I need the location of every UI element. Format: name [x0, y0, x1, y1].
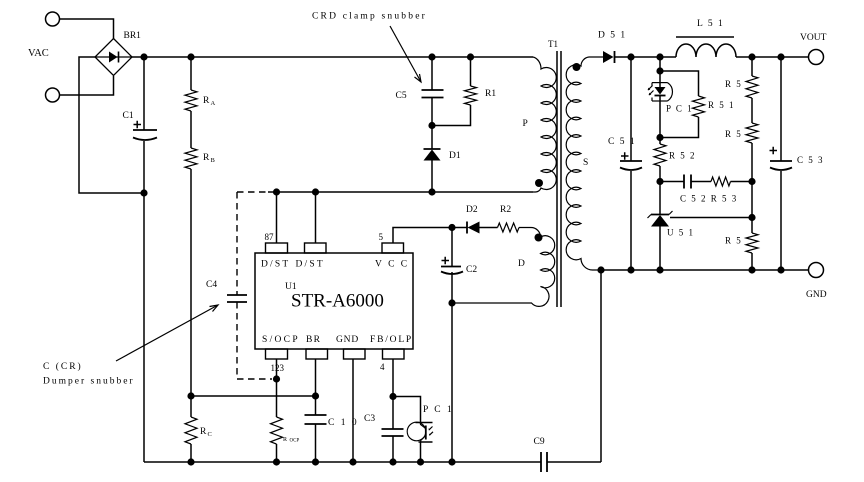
svg-text:R 5: R 5 — [725, 129, 742, 139]
svg-text:C 1 0: C 1 0 — [328, 418, 359, 428]
shunt regulator U51 — [648, 211, 673, 227]
node bridge output — [140, 53, 147, 60]
optocoupler LED PC1 — [648, 57, 673, 144]
U1 pin D/ST top second — [305, 243, 327, 253]
svg-text:D2: D2 — [466, 205, 478, 215]
node C10 bottom — [312, 458, 319, 465]
U1 pin 4 FB/OLP bottom — [383, 349, 405, 359]
svg-text:FB/OLP: FB/OLP — [370, 335, 413, 345]
wire D/ST pin 8-7 — [276, 192, 278, 243]
svg-text:P C 1: P C 1 — [423, 405, 454, 415]
resistor R5 middle — [746, 123, 758, 143]
label C2 plus — [442, 257, 450, 264]
node divider bottom — [748, 266, 755, 273]
node GND pin bottom — [349, 458, 356, 465]
U1 pin GND bottom — [344, 349, 366, 359]
svg-text:4: 4 — [380, 362, 385, 372]
resistor RC — [185, 417, 197, 444]
node LED top — [656, 53, 663, 60]
capacitor C3 — [382, 429, 404, 436]
svg-text:P: P — [523, 119, 528, 129]
svg-text:R 5 1: R 5 1 — [708, 100, 735, 110]
wire top DC rail — [132, 56, 533, 58]
wire C5 column — [431, 57, 433, 192]
wire FB branch to phototransistor — [393, 397, 421, 423]
svg-text:D/ST: D/ST — [261, 260, 290, 270]
svg-text:5: 5 — [379, 232, 384, 242]
node C1 bottom — [140, 189, 147, 196]
wire S/OCP pin down — [276, 359, 278, 462]
polarity dot primary — [535, 179, 543, 187]
node R1 top — [467, 53, 474, 60]
arrow to C4 — [116, 305, 218, 361]
svg-text:R: R — [200, 427, 207, 437]
diode D1 — [424, 149, 441, 161]
terminal AC input top — [46, 12, 60, 26]
capacitor C1 — [133, 130, 157, 140]
resistor RA — [185, 90, 197, 111]
resistor R1 — [465, 86, 477, 105]
wire GND pin down — [352, 359, 354, 462]
U1 pin 1-2-3 S/OCP bottom — [266, 349, 288, 359]
node D/ST pin b — [312, 188, 319, 195]
node C5 top — [428, 53, 435, 60]
wire VCC pin 5 — [393, 228, 452, 244]
transformer T1 core — [556, 51, 558, 307]
svg-text:C3: C3 — [364, 414, 375, 424]
svg-text:C 5 3: C 5 3 — [797, 155, 824, 165]
wire C53 column — [780, 57, 782, 270]
node divider top — [748, 53, 755, 60]
polarity dot secondary — [573, 63, 581, 71]
node RC bottom — [187, 458, 194, 465]
resistor R52 — [654, 144, 666, 166]
node divider C52 — [748, 178, 755, 185]
U1 pin 5 VCC top — [382, 243, 404, 253]
svg-text:C 5 2 R 5 3: C 5 2 R 5 3 — [680, 194, 738, 204]
wire U51 feedback — [670, 217, 752, 219]
svg-text:123: 123 — [271, 363, 285, 373]
wire D/ST pin second — [315, 192, 317, 243]
bridge rectifier BR1 — [95, 39, 132, 76]
wire FB/OLP pin down — [392, 359, 394, 462]
transformer T1 secondary winding S — [566, 57, 603, 270]
svg-text:OCP: OCP — [290, 439, 300, 444]
node C2 aux winding — [448, 299, 455, 306]
resistor R53 — [711, 177, 731, 186]
node C5 D1 R1 — [428, 122, 435, 129]
wire D/ST rail — [268, 191, 533, 193]
capacitor C5 — [422, 90, 444, 98]
wire secondary ground rail — [601, 269, 809, 271]
capacitor C52 — [660, 175, 711, 189]
U1 pin 8-7 D/ST top — [266, 243, 288, 253]
svg-text:R: R — [203, 153, 210, 163]
svg-text:D/ST: D/ST — [296, 260, 325, 270]
svg-text:C9: C9 — [534, 437, 545, 447]
node RA top — [187, 53, 194, 60]
wire BR pin down — [315, 359, 317, 462]
terminal VOUT — [809, 50, 824, 65]
node FB C3 — [389, 393, 396, 400]
wire AC top to bridge — [60, 19, 114, 39]
node RC top — [187, 392, 194, 399]
svg-text:C (CR): C (CR) — [43, 361, 83, 372]
node LED R51 — [656, 67, 663, 74]
node C2 bottom — [448, 458, 455, 465]
svg-text:C 5 1: C 5 1 — [608, 137, 636, 147]
wire BR node horizontal — [191, 395, 316, 397]
node LED bottom R52 — [656, 134, 663, 141]
wire bottom rail — [144, 270, 601, 462]
node C10 top — [312, 392, 319, 399]
node C51 bottom — [627, 266, 634, 273]
svg-text:D: D — [518, 259, 525, 269]
svg-text:GND: GND — [336, 335, 359, 345]
phototransistor PC1 — [407, 422, 433, 442]
inductor L51 — [676, 44, 736, 57]
svg-text:R: R — [203, 96, 210, 106]
svg-text:R2: R2 — [500, 205, 511, 215]
wire AC bottom to bridge — [60, 76, 114, 95]
node D51 cathode C51 — [627, 53, 634, 60]
node C3 bottom — [389, 458, 396, 465]
node snubber S/OCP — [273, 375, 280, 382]
svg-text:S/OCP: S/OCP — [262, 335, 300, 345]
wire R53 to divider — [731, 181, 753, 183]
svg-text:BR1: BR1 — [124, 31, 142, 41]
svg-text:GND: GND — [806, 290, 827, 300]
svg-text:D1: D1 — [449, 151, 461, 161]
svg-text:C5: C5 — [396, 91, 407, 101]
resistor R2 — [498, 223, 520, 232]
resistor R OCP — [271, 417, 283, 444]
label C1 plus — [134, 121, 142, 128]
label C53 plus — [770, 147, 778, 154]
wire VCC node to D2 — [452, 227, 498, 229]
dashed snubber wiring — [237, 192, 272, 379]
wire secondary top rail — [615, 56, 809, 58]
wire U51 anode down — [659, 227, 661, 271]
wire C51 column — [630, 57, 632, 270]
node divider U51 — [748, 214, 755, 221]
svg-text:C2: C2 — [466, 265, 477, 275]
svg-text:Dumper snubber: Dumper snubber — [43, 377, 135, 387]
svg-text:C1: C1 — [123, 111, 134, 121]
svg-text:B: B — [211, 157, 216, 164]
node U51 bottom — [656, 266, 663, 273]
polarity dot auxiliary — [535, 234, 543, 242]
capacitor C10 — [305, 415, 327, 424]
wire phototransistor emitter down — [420, 442, 422, 463]
node D/ST pin a — [273, 188, 280, 195]
wire R51 branch — [660, 71, 699, 138]
capacitor C2 — [441, 267, 463, 275]
capacitor C4 — [227, 295, 247, 302]
svg-text:BR: BR — [306, 335, 321, 345]
svg-text:T1: T1 — [548, 39, 558, 49]
node R52 C52 — [656, 178, 663, 185]
svg-text:VOUT: VOUT — [800, 33, 827, 43]
svg-text:A: A — [211, 100, 216, 107]
capacitor C9 — [541, 452, 547, 472]
resistor R5 bottom — [746, 233, 758, 253]
svg-text:R 5: R 5 — [725, 79, 742, 89]
svg-text:R1: R1 — [485, 89, 496, 99]
svg-text:R: R — [283, 437, 287, 443]
label C51 plus — [621, 152, 629, 159]
diode D51 — [603, 51, 615, 63]
resistor RB — [185, 148, 197, 169]
terminal AC input bottom — [46, 88, 60, 102]
wire C1 column — [143, 57, 145, 462]
capacitor C53 — [770, 161, 792, 170]
svg-text:V C C: V C C — [375, 260, 409, 270]
wire C2 column — [451, 228, 453, 463]
diode D2 — [467, 222, 480, 234]
resistor R5 top — [746, 76, 758, 98]
wire R52 to U51 — [659, 166, 661, 215]
wire bridge negative to bottom-left corner — [79, 57, 144, 193]
transformer T1 auxiliary winding D — [452, 228, 555, 307]
node secondary return — [597, 266, 604, 273]
svg-text:L 5 1: L 5 1 — [697, 19, 724, 29]
svg-text:P C 1: P C 1 — [666, 104, 693, 114]
svg-text:D 5 1: D 5 1 — [598, 31, 627, 41]
svg-text:CRD clamp snubber: CRD clamp snubber — [312, 12, 427, 22]
svg-text:C4: C4 — [206, 280, 217, 290]
svg-text:R 5 2: R 5 2 — [669, 151, 696, 161]
node PC1 emitter bottom — [417, 458, 424, 465]
wire RA RB column — [190, 57, 192, 462]
resistor R51 — [693, 96, 705, 117]
wire R1 column — [432, 57, 471, 126]
svg-text:R 5: R 5 — [725, 236, 742, 246]
svg-text:S: S — [583, 158, 588, 168]
svg-text:U 5 1: U 5 1 — [667, 228, 695, 238]
svg-text:VAC: VAC — [28, 48, 49, 59]
wire divider column — [751, 57, 753, 270]
capacitor C51 — [620, 161, 642, 170]
svg-text:87: 87 — [265, 232, 275, 242]
node C53 top — [777, 53, 784, 60]
node VCC C2 — [448, 224, 455, 231]
arrow to C5 — [390, 26, 421, 82]
node ROCP bottom — [273, 458, 280, 465]
U1 pin BR bottom — [306, 349, 328, 359]
transformer T1 primary winding P — [533, 57, 556, 192]
inductor L51 core line — [676, 36, 734, 38]
op-amp U1 body STR-A6000 — [255, 253, 413, 349]
svg-text:C: C — [208, 431, 212, 438]
terminal GND — [809, 263, 824, 278]
node D1 anode rail — [428, 188, 435, 195]
node C53 bottom — [777, 266, 784, 273]
svg-text:STR-A6000: STR-A6000 — [291, 291, 384, 312]
